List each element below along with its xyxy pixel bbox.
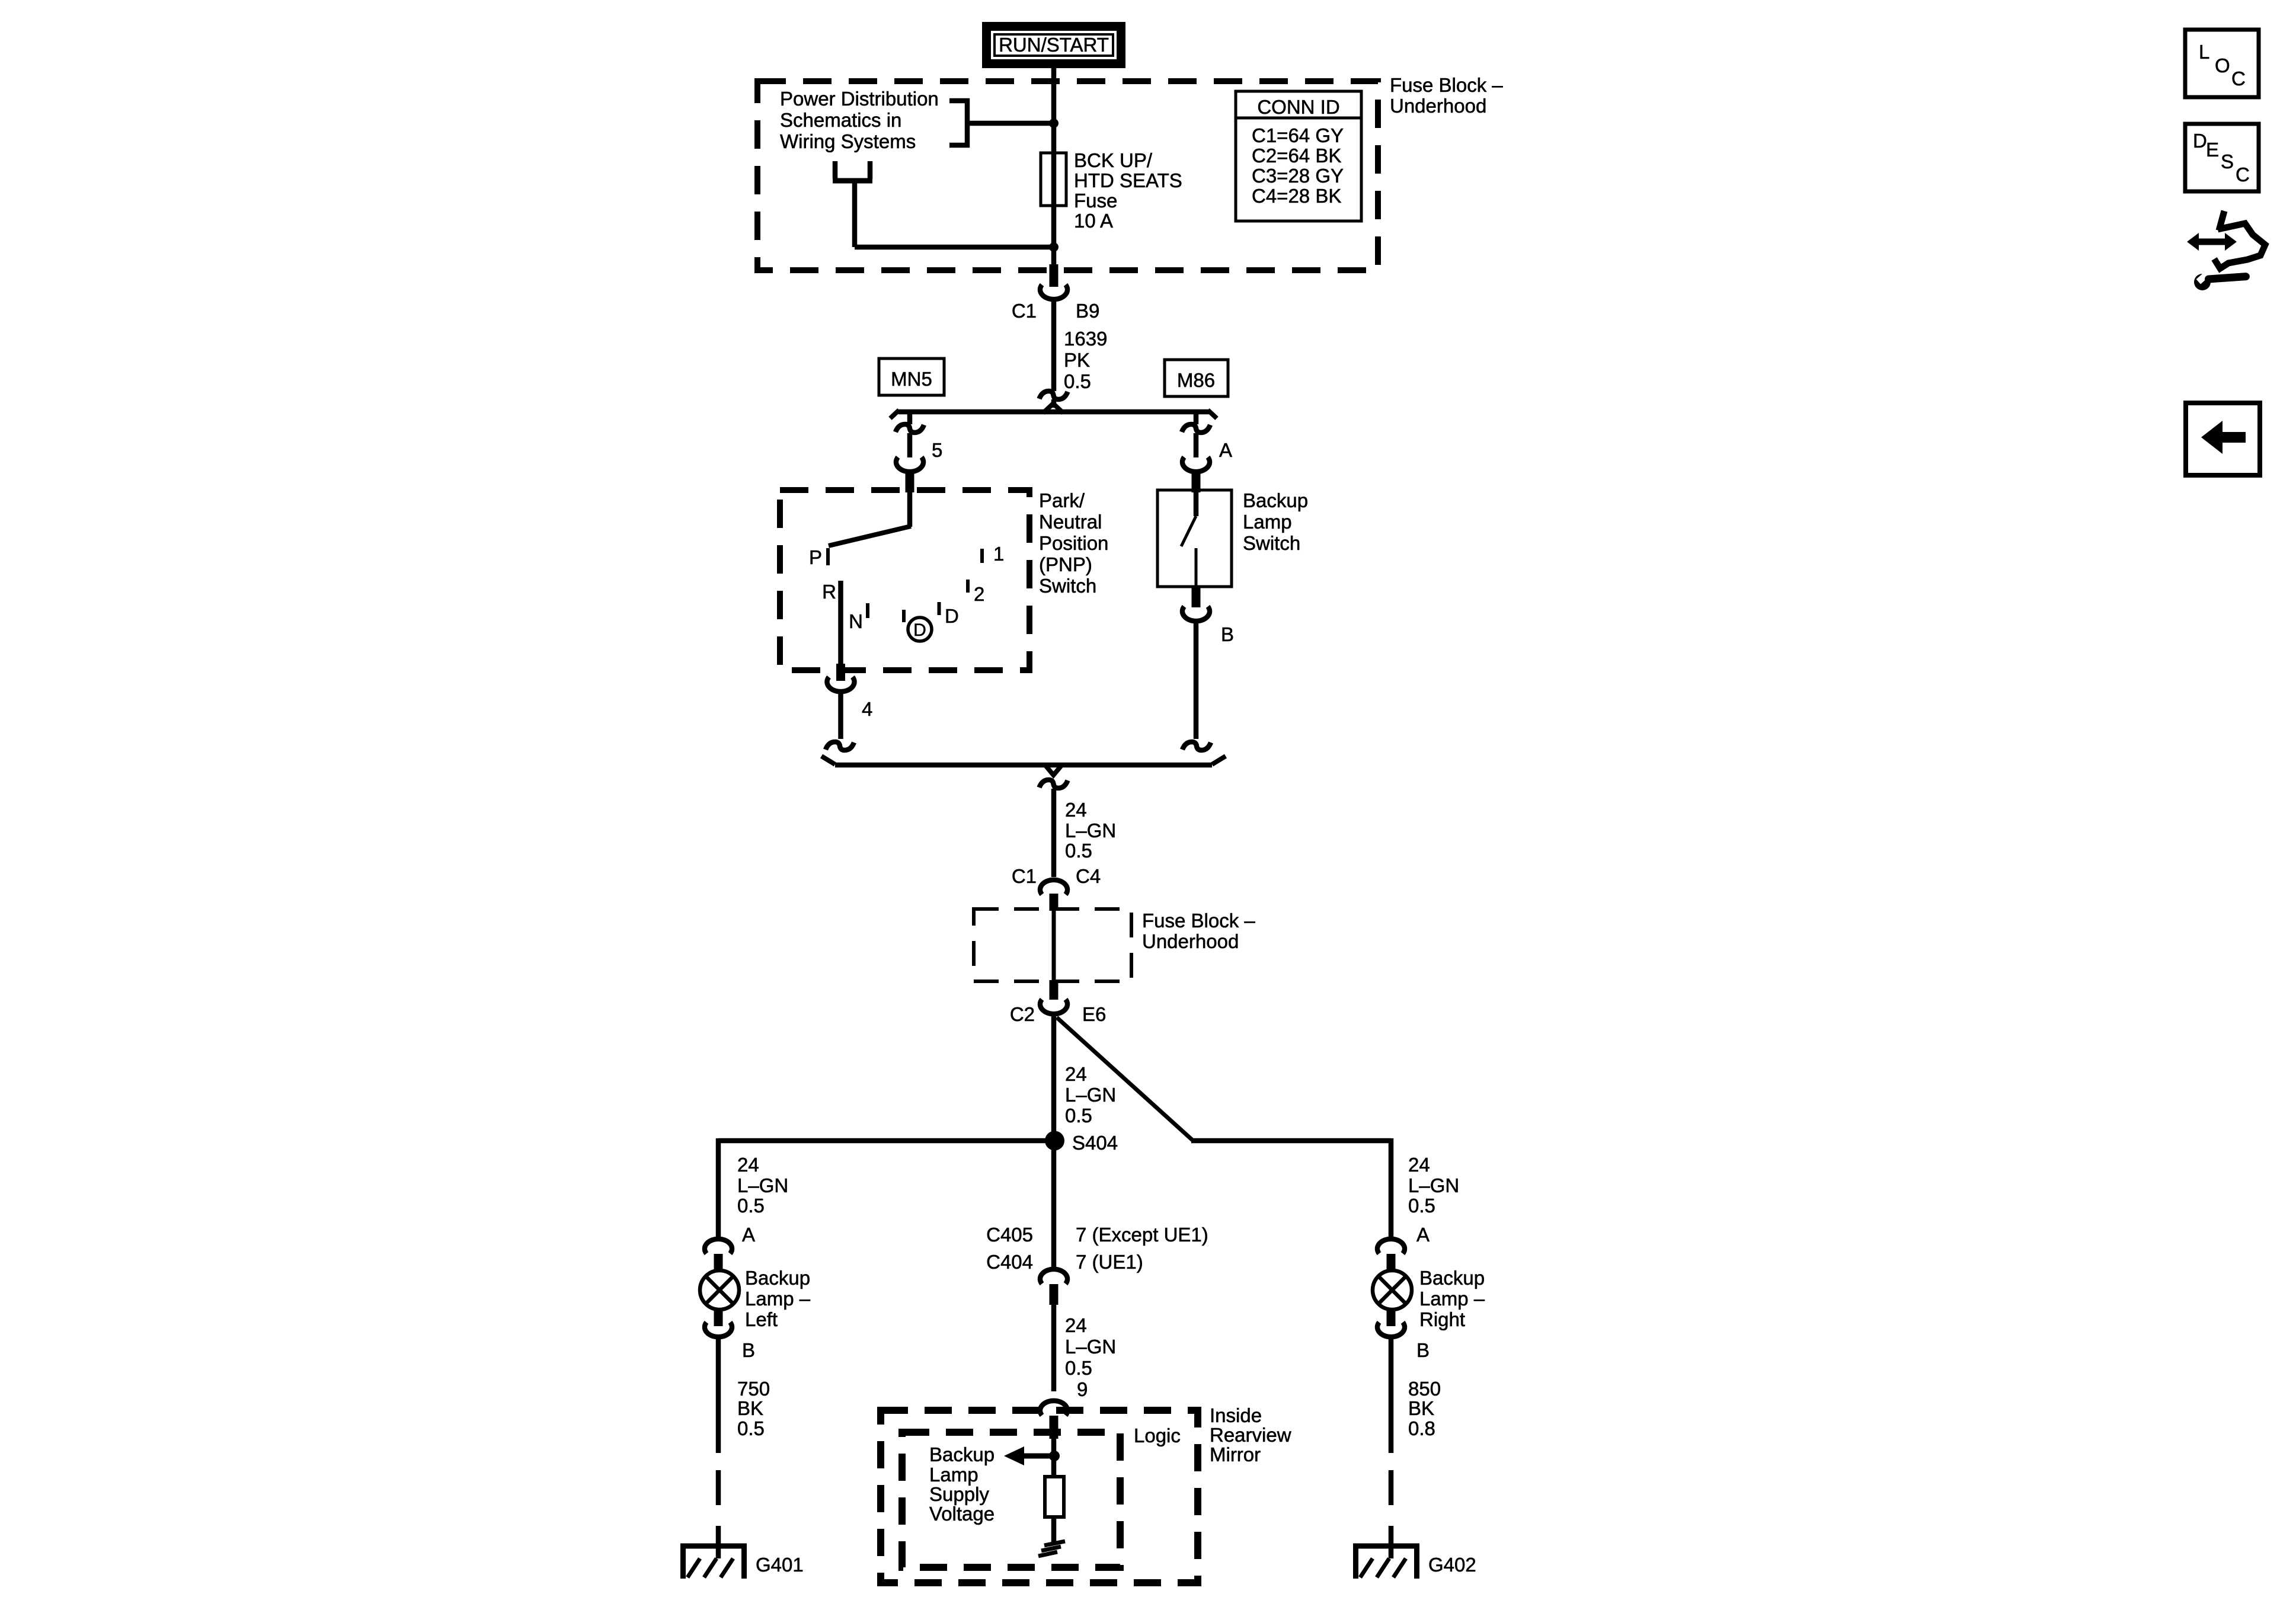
svg-text:Right: Right: [1419, 1308, 1465, 1330]
svg-text:Rearview: Rearview: [1210, 1424, 1291, 1446]
svg-text:A: A: [1219, 439, 1232, 461]
svg-text:S: S: [2221, 151, 2234, 172]
svg-text:L–GN: L–GN: [737, 1174, 788, 1196]
svg-text:1639: 1639: [1064, 328, 1107, 350]
svg-text:0.5: 0.5: [1065, 1357, 1092, 1379]
svg-text:A: A: [742, 1224, 755, 1246]
svg-text:BCK UP/: BCK UP/: [1074, 149, 1153, 171]
svg-text:Underhood: Underhood: [1142, 930, 1239, 952]
svg-text:CONN ID: CONN ID: [1257, 96, 1339, 118]
svg-text:D: D: [2193, 130, 2207, 152]
svg-text:RUN/START: RUN/START: [999, 34, 1109, 56]
svg-text:9: 9: [1077, 1378, 1088, 1400]
svg-text:Inside: Inside: [1210, 1404, 1262, 1426]
svg-text:Schematics in: Schematics in: [780, 109, 901, 131]
svg-text:Position: Position: [1039, 532, 1108, 554]
svg-text:850: 850: [1408, 1378, 1441, 1400]
svg-text:2: 2: [974, 583, 984, 605]
svg-text:BK: BK: [737, 1397, 763, 1419]
svg-text:Mirror: Mirror: [1210, 1443, 1261, 1465]
svg-text:D: D: [913, 620, 926, 640]
svg-text:B: B: [1221, 623, 1234, 645]
svg-text:Lamp –: Lamp –: [745, 1288, 811, 1310]
svg-text:Neutral: Neutral: [1039, 511, 1102, 533]
svg-text:C4: C4: [1076, 865, 1101, 887]
svg-text:0.5: 0.5: [1408, 1195, 1435, 1217]
svg-text:Switch: Switch: [1039, 575, 1096, 597]
svg-text:5: 5: [932, 439, 942, 461]
svg-text:Park/: Park/: [1039, 489, 1085, 511]
svg-text:750: 750: [737, 1378, 770, 1400]
svg-text:O: O: [2215, 55, 2230, 76]
svg-text:24: 24: [1065, 1314, 1087, 1336]
svg-text:Voltage: Voltage: [929, 1503, 994, 1525]
svg-text:Lamp –: Lamp –: [1419, 1288, 1485, 1310]
svg-text:C3=28 GY: C3=28 GY: [1252, 165, 1344, 187]
svg-text:L–GN: L–GN: [1065, 1336, 1116, 1358]
svg-text:M86: M86: [1177, 369, 1215, 391]
svg-text:S404: S404: [1072, 1132, 1118, 1154]
svg-text:MN5: MN5: [891, 368, 932, 390]
svg-text:0.5: 0.5: [1064, 370, 1091, 392]
svg-text:C405: C405: [986, 1224, 1033, 1246]
svg-text:Backup: Backup: [745, 1267, 810, 1289]
svg-text:Backup: Backup: [929, 1443, 994, 1465]
svg-text:Supply: Supply: [929, 1483, 989, 1505]
svg-text:0.8: 0.8: [1408, 1417, 1435, 1439]
svg-text:Backup: Backup: [1243, 489, 1308, 511]
svg-text:L–GN: L–GN: [1065, 820, 1116, 841]
svg-text:24: 24: [1408, 1154, 1430, 1176]
svg-text:PK: PK: [1064, 349, 1090, 371]
svg-text:(PNP): (PNP): [1039, 553, 1092, 575]
svg-text:Left: Left: [745, 1308, 778, 1330]
svg-text:B: B: [742, 1339, 755, 1361]
svg-text:D: D: [945, 605, 959, 627]
svg-text:C1=64 GY: C1=64 GY: [1252, 124, 1344, 146]
svg-text:C1: C1: [1012, 300, 1037, 322]
svg-text:G401: G401: [756, 1554, 804, 1576]
svg-text:HTD SEATS: HTD SEATS: [1074, 169, 1182, 191]
svg-text:24: 24: [1065, 799, 1087, 821]
svg-text:Logic: Logic: [1134, 1425, 1181, 1446]
svg-text:0.5: 0.5: [737, 1417, 765, 1439]
svg-text:4: 4: [862, 698, 872, 720]
svg-text:Fuse Block –: Fuse Block –: [1390, 74, 1503, 96]
svg-text:C: C: [2231, 68, 2246, 89]
svg-text:10 A: 10 A: [1074, 210, 1113, 232]
svg-text:BK: BK: [1408, 1397, 1434, 1419]
svg-text:C2: C2: [1010, 1003, 1035, 1025]
svg-text:Underhood: Underhood: [1390, 95, 1486, 117]
svg-text:L: L: [2199, 41, 2209, 63]
svg-text:0.5: 0.5: [1065, 840, 1092, 862]
svg-text:0.5: 0.5: [737, 1195, 765, 1217]
svg-text:G402: G402: [1428, 1554, 1476, 1576]
svg-text:24: 24: [737, 1154, 759, 1176]
svg-text:0.5: 0.5: [1065, 1105, 1092, 1126]
svg-text:L–GN: L–GN: [1408, 1174, 1459, 1196]
svg-text:E: E: [2206, 139, 2219, 161]
svg-text:B: B: [1416, 1339, 1430, 1361]
svg-text:Fuse: Fuse: [1074, 190, 1117, 212]
svg-text:Power Distribution: Power Distribution: [780, 88, 939, 110]
svg-text:P: P: [809, 546, 822, 568]
svg-text:C1: C1: [1012, 865, 1037, 887]
svg-text:N: N: [849, 610, 863, 632]
svg-text:B9: B9: [1076, 300, 1099, 322]
svg-text:L–GN: L–GN: [1065, 1084, 1116, 1106]
svg-text:24: 24: [1065, 1063, 1087, 1085]
svg-text:Wiring Systems: Wiring Systems: [780, 130, 916, 152]
svg-text:C404: C404: [986, 1251, 1033, 1273]
svg-text:A: A: [1416, 1224, 1430, 1246]
svg-text:Backup: Backup: [1419, 1267, 1485, 1289]
svg-text:C2=64 BK: C2=64 BK: [1252, 145, 1341, 167]
svg-text:Lamp: Lamp: [1243, 511, 1292, 533]
svg-text:7 (UE1): 7 (UE1): [1076, 1251, 1143, 1273]
svg-text:R: R: [822, 581, 836, 603]
svg-text:C: C: [2236, 164, 2250, 185]
svg-text:E6: E6: [1082, 1003, 1106, 1025]
svg-text:Fuse Block –: Fuse Block –: [1142, 910, 1255, 932]
svg-text:C4=28 BK: C4=28 BK: [1252, 185, 1341, 207]
svg-text:7 (Except UE1): 7 (Except UE1): [1076, 1224, 1208, 1246]
svg-text:Switch: Switch: [1243, 532, 1300, 554]
svg-text:1: 1: [993, 543, 1004, 565]
svg-text:Lamp: Lamp: [929, 1464, 978, 1486]
